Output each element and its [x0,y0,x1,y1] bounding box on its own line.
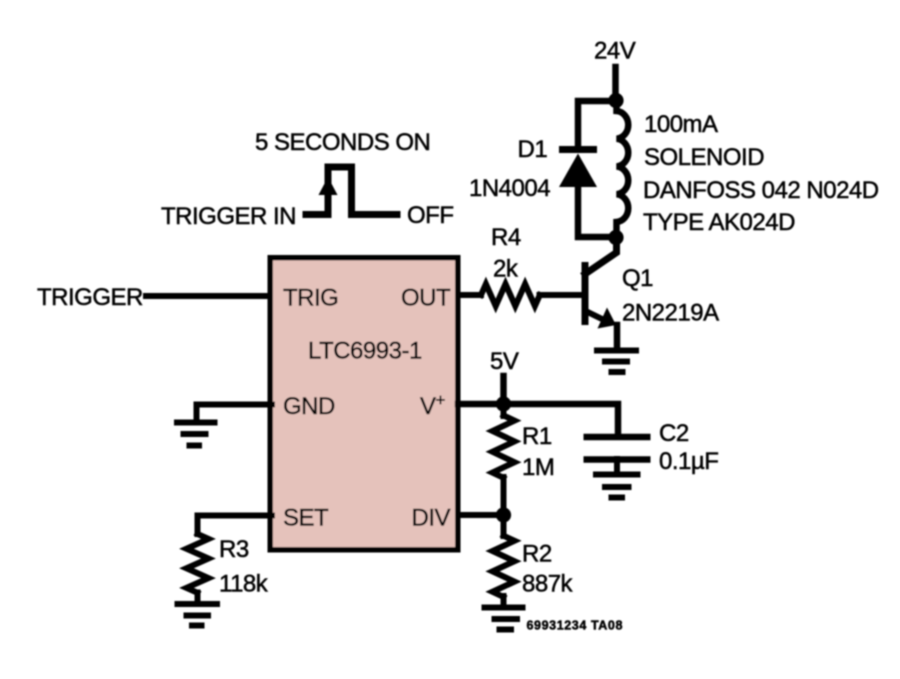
svg-text:R4: R4 [491,224,521,251]
inductor solenoid coil [617,101,629,237]
ground R3 [175,604,221,626]
diode D1 triangle [559,154,597,188]
svg-text:TYPE AK024D: TYPE AK024D [643,209,795,236]
svg-text:TRIGGER IN: TRIGGER IN [161,203,296,230]
svg-text:887k: 887k [522,571,574,598]
svg-text:C2: C2 [659,420,689,447]
svg-text:SET: SET [283,505,329,532]
waveform trigger edge arrow [319,177,338,195]
svg-text:SOLENOID: SOLENOID [644,144,764,171]
svg-text:Q1: Q1 [622,265,653,292]
node junction V+ [496,396,511,411]
wire GND pin [197,405,273,420]
svg-text:2N2219A: 2N2219A [622,300,719,327]
resistor R1 [493,415,515,477]
svg-text:LTC6993-1: LTC6993-1 [308,338,422,365]
ground Q1 emitter [594,351,639,373]
node junction DIV [496,507,511,522]
svg-text:OFF: OFF [407,202,454,229]
wire DIV pin [458,512,504,518]
ground R2 [482,608,526,630]
wire C2 to ground [614,459,620,471]
svg-text:100mA: 100mA [644,111,718,138]
wire diode top link [578,101,616,144]
transistor Q1 emitter arrow [598,308,617,329]
svg-text:2k: 2k [493,256,519,283]
svg-text:OUT: OUT [401,285,451,312]
wire OUT pin to R4 [458,292,481,298]
wire R1 to DIV node [501,477,507,516]
wire V+ rail [458,404,618,433]
resistor R2 [493,536,515,597]
diode D1 cathode bar [559,146,597,153]
wire SET pin [198,516,273,535]
wire V+ to R1 [501,404,507,416]
svg-text:TRIGGER: TRIGGER [37,284,143,311]
svg-text:R3: R3 [219,536,249,563]
svg-text:GND: GND [283,393,335,420]
svg-text:TRIG: TRIG [283,285,338,312]
wire Q1 emitter down [614,325,621,346]
wire diode bottom link [578,185,616,237]
resistor R4 [481,284,540,306]
wire DIV to R2 [501,515,507,536]
ground GND pin [174,423,218,446]
capacitor C2 bottom plate [584,456,651,463]
svg-text:5 SECONDS ON: 5 SECONDS ON [255,129,430,156]
transistor Q1 collector diagonal [585,239,617,274]
wire R2 to ground [501,596,507,605]
svg-text:24V: 24V [594,38,636,65]
resistor R3 [187,534,209,593]
transistor Q1 base bar [582,266,589,322]
svg-text:D1: D1 [518,136,548,163]
svg-text:DIV: DIV [412,505,451,532]
svg-text:R1: R1 [522,423,552,450]
svg-text:5V: 5V [490,348,519,375]
capacitor C2 top plate [584,434,651,441]
svg-text:0.1µF: 0.1µF [659,448,718,475]
waveform pulse [306,167,397,215]
ground C2 [593,475,641,498]
svg-text:DANFOSS 042 N024D: DANFOSS 042 N024D [643,177,879,204]
node junction bottom of solenoid [608,230,623,245]
svg-text:1N4004: 1N4004 [469,175,550,202]
svg-text:R2: R2 [522,541,552,568]
wire R3 to ground [195,593,201,602]
svg-text:69931234 TA08: 69931234 TA08 [527,619,624,633]
wire TRIGGER to TRIG pin [146,293,272,299]
wire R4 to Q1 base [540,292,583,298]
wire 5V stub [500,376,507,404]
transistor Q1 emitter diagonal [586,311,602,319]
svg-text:118k: 118k [219,571,269,598]
svg-text:1M: 1M [522,454,554,481]
wire 24V stub [612,67,619,99]
node junction top of solenoid [608,93,623,108]
IC U1 LTC6993-1 body [270,258,458,550]
